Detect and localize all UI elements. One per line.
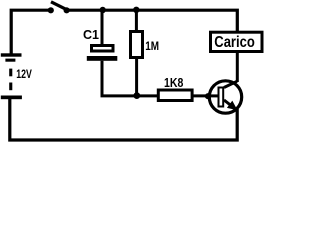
transistor Q1: [209, 81, 241, 113]
wire top-left: battery positive up and across to switch: [11, 10, 49, 53]
battery B1 12V: [1, 53, 22, 99]
capacitor C1: [87, 46, 118, 61]
resistor 1K8: [158, 90, 192, 101]
svg-text:12V: 12V: [16, 68, 32, 81]
wire: top rail down to 1M: [135, 10, 138, 31]
svg-text:Carico: Carico: [214, 34, 255, 51]
wire: top rail down to C1: [101, 10, 104, 45]
node: top junction to C1: [100, 7, 106, 13]
wire: collector up to load: [236, 53, 239, 82]
switch S1: [48, 2, 70, 14]
wire: 1K8 to transistor base: [192, 94, 220, 97]
node: base junction dot: [205, 93, 211, 99]
node: mid junction: [133, 92, 140, 99]
wire top rail: switch to top-right corner down to load: [64, 10, 237, 31]
wire bottom rail: battery negative down, across, up to emitter: [10, 99, 237, 140]
svg-text:C1: C1: [83, 27, 100, 42]
resistor 1M: [131, 32, 143, 58]
load box Carico: [211, 32, 263, 51]
wire: C1 bottom down and right to mid rail: [102, 61, 158, 96]
svg-text:1M: 1M: [145, 39, 159, 53]
wire: 1M bottom down to mid rail: [135, 59, 138, 96]
node: top junction to R 1M: [133, 7, 139, 13]
svg-text:1K8: 1K8: [164, 75, 183, 90]
